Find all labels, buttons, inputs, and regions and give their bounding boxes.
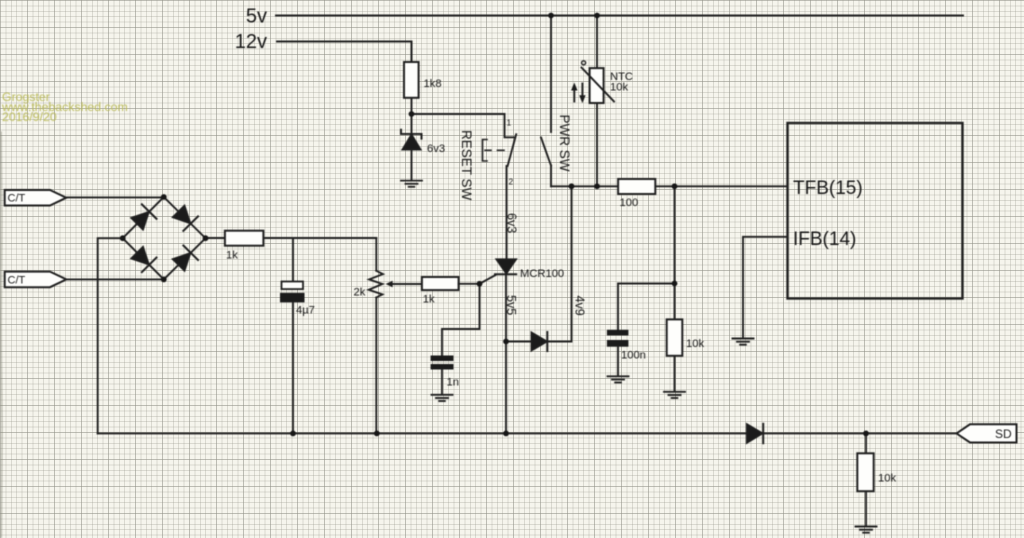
bridge rectifier diamond wires xyxy=(123,197,206,279)
junction dot rail pot xyxy=(374,431,380,437)
thermistor NTC 10k xyxy=(582,61,615,103)
capacitor C 100n xyxy=(607,330,629,347)
resistor R 100 xyxy=(618,179,655,194)
wire junction 1k8 to reset switch xyxy=(412,113,505,115)
svg-text:5v: 5v xyxy=(246,6,267,28)
svg-text:2016/9/20: 2016/9/20 xyxy=(2,110,57,124)
wire switch pin2 down to SCR xyxy=(506,166,508,260)
wire 100n to ground xyxy=(617,347,619,376)
junction dot 5v ntc xyxy=(594,13,600,19)
wire main mid node horizontal to TFB xyxy=(551,185,788,187)
junction dot mid 4v9 xyxy=(569,183,575,189)
wire C/T top to bridge xyxy=(66,196,164,198)
svg-text:2: 2 xyxy=(509,177,514,187)
switch PWR SW lever xyxy=(541,138,551,166)
5v power rail wire xyxy=(276,15,963,17)
potentiometer wiper arrow xyxy=(386,281,422,287)
resistor R 1k8 xyxy=(404,62,419,98)
capacitor C 4u7 polarized xyxy=(280,282,305,303)
wire 100n branch xyxy=(618,284,675,330)
switch RESET SW xyxy=(505,114,517,166)
svg-text:100: 100 xyxy=(620,197,639,209)
bridge diode top-left xyxy=(130,204,157,231)
ground below zener xyxy=(401,181,422,187)
potentiometer R 2k zigzag xyxy=(369,271,383,298)
wire gate node down to 1n xyxy=(442,284,480,356)
wire 4v9 riser xyxy=(548,186,572,341)
ground below IFB xyxy=(733,339,754,345)
svg-text:2k: 2k xyxy=(354,287,366,299)
wire C/T bottom to bridge xyxy=(66,278,164,280)
connector C/T top flag xyxy=(5,190,67,206)
junction dot diode anode xyxy=(503,339,509,345)
scan edge artifact left border xyxy=(0,132,3,538)
12v wire xyxy=(277,42,412,63)
junction dot mid 100 xyxy=(672,183,678,189)
svg-text:6v3: 6v3 xyxy=(427,143,445,155)
junction dot bridge left xyxy=(120,235,126,241)
ground below 10k bottom xyxy=(856,527,877,533)
wire PWR SW from 5v rail xyxy=(550,16,552,133)
svg-text:4v9: 4v9 xyxy=(573,296,587,316)
svg-text:4µ7: 4µ7 xyxy=(296,305,315,317)
wire 4u7 to rail xyxy=(292,302,294,433)
zener diode D 6v3 xyxy=(401,130,422,150)
resistor R 10k bottom xyxy=(857,453,873,491)
wire bridge right node to pot corner xyxy=(206,237,377,239)
wire diode anode to SCR line xyxy=(506,341,532,343)
junction dot rail 4u7 xyxy=(290,431,296,437)
svg-text:10k: 10k xyxy=(686,338,704,350)
svg-text:TFB(15): TFB(15) xyxy=(793,178,863,199)
wire bridge left node west xyxy=(98,238,123,433)
junction dot below 1k8 xyxy=(409,111,415,117)
ground below 100n xyxy=(608,376,629,382)
svg-text:10k: 10k xyxy=(610,82,628,94)
junction dot mid ntc xyxy=(594,183,600,189)
wire PWR SW lower lead xyxy=(550,166,552,187)
junction dot rail 10k xyxy=(863,431,869,437)
svg-text:5v5: 5v5 xyxy=(504,295,518,315)
junction dot bridge bottom xyxy=(161,277,167,283)
svg-text:RESET SW: RESET SW xyxy=(459,130,474,201)
svg-text:MCR100: MCR100 xyxy=(520,268,564,280)
resistor R 1k left xyxy=(225,231,264,246)
capacitor C 1n xyxy=(431,356,454,370)
bridge diode bottom-left xyxy=(130,245,157,272)
junction dot bridge right xyxy=(203,235,209,241)
svg-text:IFB(14): IFB(14) xyxy=(793,229,856,250)
ground below 1n xyxy=(432,395,453,401)
svg-text:6v3: 6v3 xyxy=(505,213,519,233)
bridge diode bottom-right xyxy=(171,246,198,273)
svg-text:C/T: C/T xyxy=(8,274,26,286)
svg-text:1: 1 xyxy=(507,118,512,128)
junction dot rail scr xyxy=(503,431,509,437)
svg-text:C/T: C/T xyxy=(8,193,26,205)
svg-text:100n: 100n xyxy=(621,350,646,362)
svg-text:PWR SW: PWR SW xyxy=(557,115,572,172)
connector SD flag xyxy=(957,424,1017,442)
ground below 10k mid xyxy=(664,392,685,398)
wire zener to ground xyxy=(411,114,413,180)
wire 1n to ground xyxy=(441,370,443,395)
svg-text:12v: 12v xyxy=(235,31,267,53)
wire 100n 10k node xyxy=(674,186,676,391)
junction dot gate node xyxy=(477,281,483,287)
wire NTC branch vertical xyxy=(596,16,598,187)
arrow down beside NTC xyxy=(579,84,585,104)
wire 10k pulldown xyxy=(865,433,867,526)
svg-text:1n: 1n xyxy=(447,377,459,389)
connector C/T bottom flag xyxy=(5,272,67,288)
arrow up beside NTC xyxy=(571,83,577,102)
bridge diode top-right xyxy=(171,204,198,231)
wire 1k8 body vertical xyxy=(411,42,413,115)
resistor R 1k gate xyxy=(422,277,459,290)
svg-text:1k: 1k xyxy=(226,250,238,262)
junction dot bridge top xyxy=(161,194,167,200)
wire SCR cathode down to bottom rail xyxy=(505,274,507,433)
bottom rail wire xyxy=(98,432,957,434)
svg-text:1k8: 1k8 xyxy=(424,78,442,90)
IC box U1 xyxy=(788,123,963,299)
svg-text:1k: 1k xyxy=(423,294,435,306)
wire 4u7 cap branch xyxy=(292,238,294,282)
wire pot top lead xyxy=(375,238,377,271)
junction dot 100n node xyxy=(672,281,678,287)
diode D rail pointing right xyxy=(747,424,763,443)
push actuator bracket of RESET SW xyxy=(483,140,505,162)
wire 1k gate to SCR gate node xyxy=(459,283,480,285)
wire IFB lead xyxy=(743,237,788,338)
junction dot 5v pwr sw xyxy=(548,13,554,19)
svg-text:SD: SD xyxy=(995,427,1012,441)
svg-text:10k: 10k xyxy=(878,473,896,485)
diode D mid pointing right xyxy=(532,332,548,351)
wire pot bottom lead xyxy=(375,298,377,434)
resistor R 10k mid xyxy=(667,319,683,355)
thyristor U MCR100 xyxy=(480,259,517,284)
